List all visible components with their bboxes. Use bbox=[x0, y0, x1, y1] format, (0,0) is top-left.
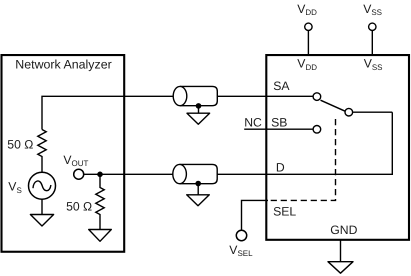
resistor R-load 50 ohm bbox=[96, 174, 104, 229]
box: analog switch IC bbox=[266, 55, 409, 240]
switch throw contact SA (open circle) bbox=[313, 93, 321, 101]
junction: coax 1 shield dot bbox=[196, 103, 202, 109]
terminal VDD (open circle) bbox=[305, 23, 312, 30]
resistor R-source 50 ohm bbox=[38, 130, 46, 173]
switch throw contact SB (open circle) bbox=[313, 126, 321, 134]
coax cable shield 1 (SA line) bbox=[173, 86, 217, 105]
wire: D net from VOUT node through coax to switch common bbox=[84, 112, 393, 174]
ground on coax 2 shield bbox=[187, 184, 210, 206]
terminal VOUT (open circle) bbox=[74, 169, 84, 179]
ground under VS bbox=[30, 199, 53, 226]
switch blade SA-to-common bbox=[321, 100, 346, 111]
junction: VOUT node dot bbox=[97, 172, 103, 178]
svg-text:SEL: SEL bbox=[273, 205, 296, 219]
wire: switch common to D net bbox=[353, 111, 393, 113]
svg-text:D: D bbox=[276, 161, 285, 175]
ground at GND pin bbox=[328, 262, 353, 274]
svg-text:GND: GND bbox=[330, 223, 357, 237]
source VS (AC sine source) bbox=[29, 172, 56, 199]
wire: SB stub bbox=[244, 128, 313, 130]
wire: SA net from network analyzer output to SA pin bbox=[42, 96, 313, 129]
coax cable shield 2 (D line) bbox=[173, 164, 217, 183]
svg-text:NC: NC bbox=[244, 115, 262, 129]
ground on coax 1 shield bbox=[187, 106, 210, 124]
switch common contact (open circle) bbox=[345, 108, 353, 116]
wire: VSS pin lead bbox=[371, 30, 373, 54]
dashed control line: SEL to switch bbox=[271, 119, 336, 200]
terminal VSS (open circle) bbox=[369, 23, 376, 30]
terminal VSEL (open circle) bbox=[236, 230, 246, 240]
wire: VDD pin lead bbox=[307, 30, 309, 54]
svg-text:SA: SA bbox=[273, 79, 290, 93]
box: Network Analyzer bbox=[2, 55, 125, 252]
svg-text:SB: SB bbox=[271, 115, 287, 129]
ground under load resistor bbox=[89, 230, 112, 242]
wire: VSEL to SEL pin bbox=[242, 200, 269, 230]
junction: coax 2 shield dot bbox=[195, 181, 201, 187]
svg-text:50 Ω: 50 Ω bbox=[66, 199, 92, 213]
wire: GND pin lead bbox=[340, 240, 342, 262]
svg-text:Network Analyzer: Network Analyzer bbox=[15, 58, 111, 72]
svg-text:50 Ω: 50 Ω bbox=[7, 138, 33, 152]
